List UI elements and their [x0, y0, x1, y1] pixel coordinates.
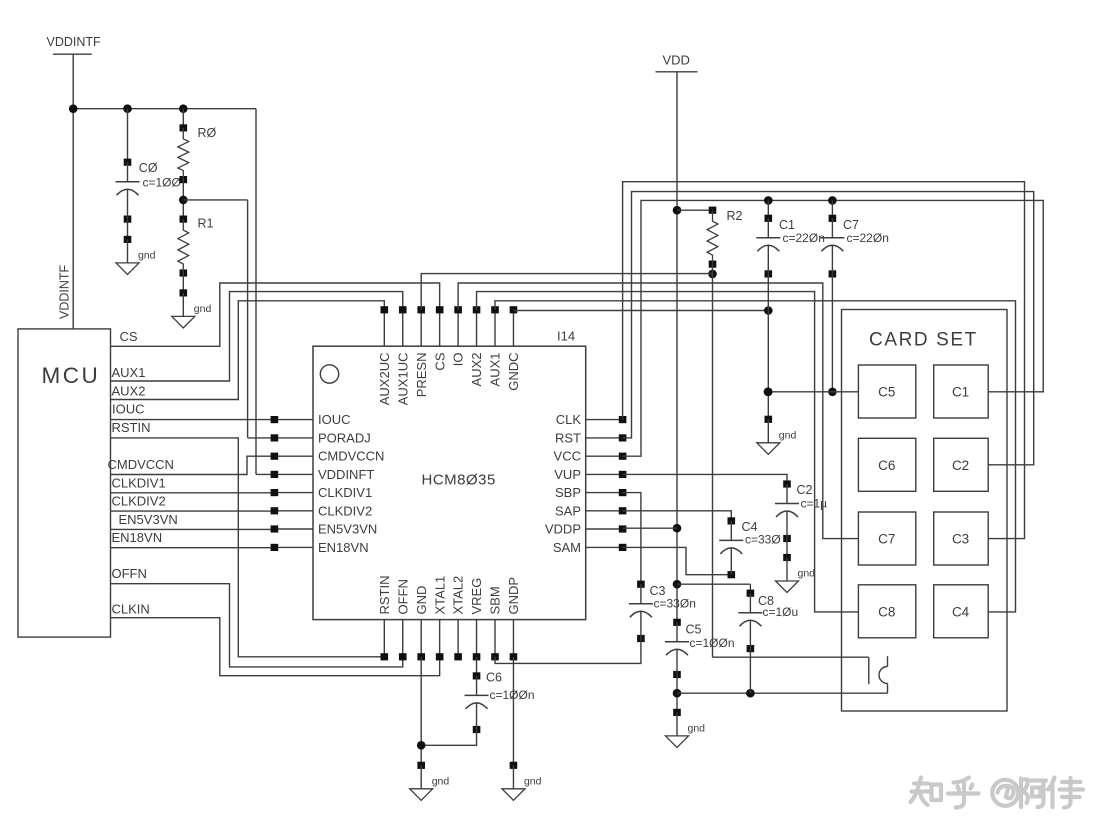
U1 left pad CLKDIV2 — [271, 503, 373, 518]
svg-text:RSTIN: RSTIN — [112, 420, 151, 435]
svg-text:c=22Øn: c=22Øn — [847, 231, 889, 245]
wire net CS (MCU to U1 CS pad) — [111, 283, 440, 346]
U1 bottom pad SBM — [488, 586, 503, 660]
svg-text:C8: C8 — [878, 604, 895, 619]
svg-text:XTAL1: XTAL1 — [432, 576, 447, 615]
wire net PRESN (U1 PRESN to R2 and card switch) — [421, 264, 869, 657]
U1 top pad CS — [432, 306, 447, 370]
card contact C3 — [934, 512, 989, 565]
glyph a (ear) — [1021, 779, 1028, 808]
wire net SBM (U1 SBM to C3 bottom) — [495, 639, 641, 664]
U1 bottom pad XTAL1 — [432, 576, 447, 661]
svg-text:C5: C5 — [878, 385, 895, 400]
glyph @ — [992, 780, 1018, 806]
wire net AUX1 (MCU to U1 AUX1UC pad) — [111, 292, 403, 381]
svg-text:gnd: gnd — [779, 429, 797, 441]
wire net VDD (vertical rail) — [673, 72, 682, 623]
wire net CMDVCCN (MCU to U1 CMDVCCN pad) — [108, 456, 275, 474]
power symbol VDD — [656, 53, 698, 72]
svg-text:EN18VN: EN18VN — [112, 530, 163, 545]
svg-text:c=1ØØn: c=1ØØn — [490, 688, 535, 702]
svg-text:gnd: gnd — [688, 722, 706, 734]
wire net PORADJ (divider to U1 PORADJ) — [183, 200, 274, 438]
card contact C4 — [934, 585, 989, 638]
card contact C5 — [858, 365, 915, 418]
svg-text:VCC: VCC — [554, 449, 581, 464]
U1 top pad PRESN — [414, 306, 429, 397]
svg-text:CS: CS — [432, 352, 447, 370]
svg-text:C3: C3 — [952, 532, 969, 547]
svg-text:c=1ØØn: c=1ØØn — [690, 636, 735, 650]
ground (below R1) — [172, 273, 212, 328]
capacitor C3 — [629, 581, 696, 643]
capacitor C0 — [116, 109, 181, 223]
node C5/ground junction — [673, 675, 682, 713]
svg-text:IO: IO — [451, 353, 466, 367]
card contact C6 — [858, 438, 915, 491]
wire C1 bottom to ground node — [764, 274, 773, 419]
wire ground bus to card switch — [677, 649, 888, 698]
MCU block — [18, 329, 111, 637]
ground (below C0) — [116, 219, 156, 274]
U1 right pad CLK — [556, 412, 627, 427]
U1 designator I14 — [557, 329, 575, 344]
wire net GNDC (U1 GNDC to ground) — [513, 306, 772, 315]
capacitor C5 (filter) — [665, 619, 735, 678]
svg-text:AUX2UC: AUX2UC — [377, 353, 392, 406]
wire net AUX2C (U1 AUX2 to card C8) — [477, 292, 859, 612]
svg-text:c=33Ø: c=33Ø — [745, 533, 781, 547]
power symbol VDDINTF — [47, 35, 102, 54]
svg-text:c=33Øn: c=33Øn — [654, 597, 696, 611]
wire net VDDINTF — [69, 54, 275, 474]
U1 top pad AUX1 — [488, 306, 503, 386]
svg-text:C2: C2 — [952, 458, 969, 473]
svg-text:C1: C1 — [952, 385, 969, 400]
svg-text:R2: R2 — [727, 209, 743, 223]
svg-text:gnd: gnd — [194, 303, 212, 315]
node R0/R1 junction — [179, 180, 188, 220]
svg-text:R1: R1 — [198, 217, 214, 231]
svg-text:gnd: gnd — [524, 775, 542, 787]
capacitor C4 — [719, 517, 780, 578]
svg-text:GNDC: GNDC — [506, 353, 521, 391]
wire card C5 contact to ground / C7 cap — [764, 388, 859, 397]
svg-text:VDDINTF: VDDINTF — [47, 35, 102, 49]
U1 right pad RST — [555, 430, 626, 445]
card presence switch contact — [869, 656, 888, 684]
wire net IOUC (MCU to U1 IOUC pad) — [111, 402, 275, 420]
svg-text:PRESN: PRESN — [414, 353, 429, 398]
wire net SAM (U1 SAM to C4 bottom) — [623, 547, 732, 574]
card contact C7 — [858, 512, 915, 565]
U1 bottom pad VREG — [469, 578, 484, 661]
svg-text:c=1µ: c=1µ — [801, 497, 828, 511]
svg-text:c=1ØØ: c=1ØØ — [143, 176, 181, 190]
wire net IO (U1 IO to card C7) — [458, 283, 858, 539]
U1 pin-1 orientation circle — [320, 365, 338, 383]
watermark (zhihu) — [911, 778, 1084, 808]
svg-text:C7: C7 — [878, 532, 895, 547]
ground (below C2) — [776, 539, 816, 593]
wire net AUX2 (MCU to U1 AUX2UC pad) — [111, 301, 385, 400]
U1 right pad SBP — [555, 485, 626, 500]
capacitor C7 — [820, 200, 888, 277]
capacitor C8 — [738, 590, 798, 653]
CARD SET enclosure — [842, 310, 1008, 712]
svg-text:CMDVCCN: CMDVCCN — [318, 449, 384, 464]
wire net SBP (U1 SBP to C3 top) — [623, 493, 641, 585]
U1 bottom pad GNDP — [506, 577, 521, 660]
U1 bottom pad GND — [414, 586, 429, 661]
card contact C1 — [934, 365, 989, 418]
resistor R0 — [178, 109, 217, 184]
svg-text:C5: C5 — [686, 623, 702, 637]
svg-text:IOUC: IOUC — [318, 412, 351, 427]
U1 right pad VDDP — [545, 522, 627, 537]
wire net CLKIN (MCU to U1 XTAL1 pad) — [111, 602, 440, 676]
wire net GNDP (U1 GNDP pin to ground) — [512, 657, 514, 766]
svg-text:VDD: VDD — [663, 53, 690, 68]
wire net CLK (U1 CLK to card C3) — [623, 182, 1025, 539]
svg-text:gnd: gnd — [138, 249, 156, 261]
svg-text:IOUC: IOUC — [112, 402, 145, 417]
U1 left pad EN5V3VN — [271, 522, 378, 537]
svg-text:VDDINFT: VDDINFT — [318, 467, 374, 482]
svg-text:XTAL2: XTAL2 — [451, 576, 466, 615]
svg-text:CS: CS — [120, 329, 138, 344]
svg-text:VREG: VREG — [469, 578, 484, 615]
U1 bottom pad OFFN — [395, 579, 410, 660]
wire net AUX1C (U1 AUX1 to card C4) — [495, 301, 1016, 612]
wire net RST (U1 RST to card C2) — [623, 192, 1034, 465]
op-amp U1 HCM8035 body — [313, 346, 586, 619]
wire C7 bottom to card C5 net — [828, 274, 837, 396]
svg-text:SAP: SAP — [555, 503, 581, 518]
svg-text:SBM: SBM — [488, 586, 503, 614]
wire net RSTIN (MCU to U1 RSTIN pad) — [111, 420, 385, 657]
svg-text:CØ: CØ — [139, 161, 158, 175]
svg-text:CLKDIV1: CLKDIV1 — [318, 485, 372, 500]
svg-text:OFFN: OFFN — [395, 579, 410, 614]
svg-text:AUX2: AUX2 — [469, 353, 484, 387]
svg-text:gnd: gnd — [432, 775, 450, 787]
svg-text:C6: C6 — [878, 458, 895, 473]
wire net CLKDIV2 — [111, 494, 275, 512]
svg-text:MCU: MCU — [42, 363, 101, 388]
svg-text:VDDP: VDDP — [545, 522, 581, 537]
U1 left pad IOUC — [271, 412, 351, 427]
wire net VCC (U1 VCC to C1/C7 and card C1) — [623, 196, 1044, 456]
U1 left pad CLKDIV1 — [271, 485, 373, 500]
wire net EN5V3VN — [111, 512, 275, 529]
U1 left pad CMDVCCN — [271, 449, 385, 464]
svg-text:CLK: CLK — [556, 412, 582, 427]
svg-text:GNDP: GNDP — [506, 577, 521, 615]
wire net VDD to C8 branch — [677, 584, 750, 593]
svg-text:c=22Øn: c=22Øn — [783, 231, 825, 245]
U1 bottom pad RSTIN — [377, 576, 392, 661]
card contact C8 — [858, 585, 915, 638]
svg-text:GND: GND — [414, 586, 429, 615]
resistor R2 — [677, 207, 743, 268]
wire net CLKDIV1 — [111, 476, 275, 493]
svg-text:CLKDIV2: CLKDIV2 — [318, 503, 372, 518]
wire net EN18VN — [111, 530, 275, 548]
resistor R1 — [178, 216, 214, 277]
svg-text:EN18VN: EN18VN — [318, 540, 369, 555]
svg-text:gnd: gnd — [798, 568, 816, 580]
U1 right pad VUP — [554, 467, 626, 482]
ground (below U1 GNDP pin) — [502, 762, 542, 801]
svg-text:c=1Øu: c=1Øu — [763, 605, 799, 619]
U1 right pad SAM — [553, 540, 627, 555]
glyph wei — [1048, 778, 1055, 808]
svg-text:AUX1UC: AUX1UC — [395, 353, 410, 406]
svg-text:RST: RST — [555, 430, 581, 445]
U1 top pad GNDC — [506, 306, 521, 391]
svg-text:OFFN: OFFN — [112, 566, 147, 581]
svg-text:CLKIN: CLKIN — [112, 602, 150, 617]
U1 left pad VDDINFT — [271, 467, 375, 482]
svg-text:SBP: SBP — [555, 485, 581, 500]
U1 right pad VCC — [554, 449, 627, 464]
svg-text:C7: C7 — [843, 218, 859, 232]
svg-text:PORADJ: PORADJ — [318, 430, 371, 445]
net label VDDINTF (vertical, on wire to MCU) — [58, 264, 72, 319]
U1 bottom pad XTAL2 — [451, 576, 466, 661]
wire net OFFN (MCU to U1 OFFN pad) — [111, 566, 403, 667]
U1 left pad EN18VN — [271, 540, 369, 555]
svg-text:AUX2: AUX2 — [112, 384, 146, 399]
svg-text:VDDINTF: VDDINTF — [58, 264, 72, 319]
svg-text:AUX1: AUX1 — [112, 365, 146, 380]
U1 top pad AUX2 — [469, 306, 484, 386]
wire C6 bottom to GND pin — [421, 730, 476, 746]
U1 left pad PORADJ — [271, 430, 371, 445]
ground (below C5) — [666, 709, 706, 748]
glyph zhi — [911, 778, 931, 806]
svg-text:C1: C1 — [779, 218, 795, 232]
svg-text:SAM: SAM — [553, 540, 581, 555]
U1 top pad AUX2UC — [377, 306, 392, 405]
svg-text:C6: C6 — [486, 671, 502, 685]
svg-text:C4: C4 — [952, 604, 970, 619]
capacitor C1 — [756, 200, 825, 277]
ground (below C1, card interface) — [757, 416, 797, 455]
svg-text:HCM8Ø35: HCM8Ø35 — [422, 472, 496, 489]
U1 right pad SAP — [555, 503, 626, 518]
U1 top pad AUX1UC — [395, 306, 410, 405]
svg-text:RØ: RØ — [198, 126, 217, 140]
svg-text:CLKDIV1: CLKDIV1 — [112, 476, 166, 491]
svg-text:CLKDIV2: CLKDIV2 — [112, 494, 166, 509]
svg-text:VUP: VUP — [554, 467, 581, 482]
node R2/PRESN junction — [708, 270, 717, 279]
U1 top pad IO — [451, 306, 466, 366]
svg-text:I14: I14 — [557, 329, 575, 344]
svg-text:CARD SET: CARD SET — [869, 330, 978, 351]
svg-text:AUX1: AUX1 — [488, 352, 503, 386]
capacitor C2 — [775, 480, 827, 542]
wire net SAP (U1 SAP to C4 top) — [623, 511, 732, 521]
svg-text:EN5V3VN: EN5V3VN — [119, 512, 178, 527]
capacitor C6 — [465, 657, 535, 733]
wire net VDDP (U1 VDDP to VDD rail) — [623, 527, 677, 529]
wire net VUP (U1 VUP to C2) — [623, 474, 787, 484]
svg-text:CMDVCCN: CMDVCCN — [108, 457, 174, 472]
wire net GND (U1 GND pin to ground) — [417, 657, 426, 766]
ground (below U1 GND pin) — [410, 762, 450, 801]
svg-text:C2: C2 — [797, 483, 813, 497]
card contact C2 — [934, 438, 989, 491]
svg-text:EN5V3VN: EN5V3VN — [318, 522, 377, 537]
svg-text:RSTIN: RSTIN — [377, 576, 392, 615]
glyph hu — [948, 778, 979, 808]
